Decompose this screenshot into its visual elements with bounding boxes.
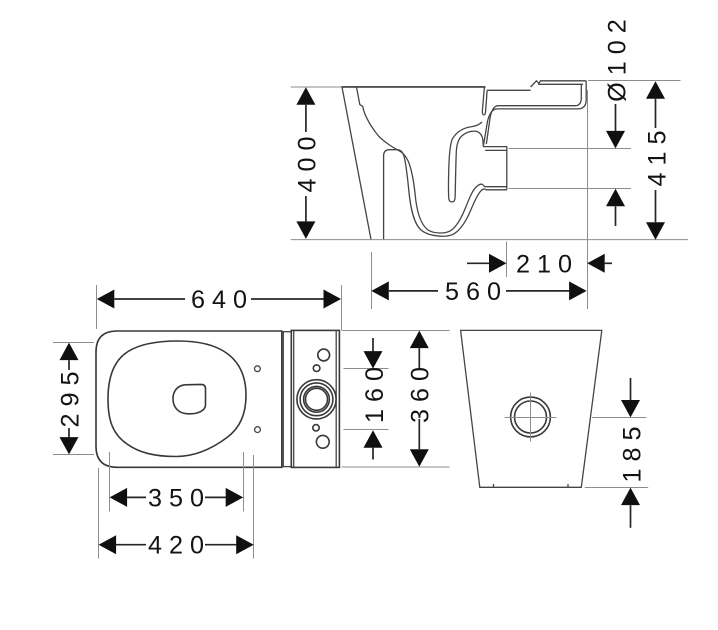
spud right edge and flush channel underside outer <box>483 81 586 147</box>
pan outline <box>96 331 282 467</box>
svg-text:360: 360 <box>407 360 435 423</box>
seat fixing hole lower <box>255 427 261 433</box>
svg-text:160: 160 <box>361 360 389 423</box>
svg-text:210: 210 <box>516 250 579 278</box>
pan rim top edge <box>342 86 486 88</box>
svg-text:185: 185 <box>618 419 646 482</box>
cistern lid hole upper big <box>318 349 330 361</box>
cistern shelf top <box>487 89 530 91</box>
pan back inner edge <box>282 331 284 467</box>
dimension 295 <box>53 343 94 455</box>
dimension 210 <box>467 242 612 279</box>
outlet socket top and right edge <box>483 147 507 190</box>
floor extension line <box>291 239 688 241</box>
svg-text:295: 295 <box>56 364 84 427</box>
cistern lid hole upper small <box>313 365 320 372</box>
svg-text:640: 640 <box>191 286 254 314</box>
foot tick right <box>567 484 569 487</box>
cistern back inner edge <box>335 330 337 467</box>
drain hole <box>173 384 206 413</box>
shelf slot behind bowl <box>482 87 487 115</box>
back edge extension line <box>587 90 589 309</box>
cistern lid hole lower big <box>316 435 329 448</box>
svg-text:400: 400 <box>293 129 321 192</box>
svg-text:Ø102: Ø102 <box>604 12 632 102</box>
back view outline <box>461 330 602 487</box>
svg-text:420: 420 <box>148 532 211 560</box>
bowl opening <box>108 341 246 457</box>
dimension 640 <box>97 285 342 330</box>
outlet crosshair vertical <box>530 393 532 442</box>
bowl inner surface <box>357 87 507 233</box>
cistern outline <box>291 330 339 467</box>
flush channel underside inner <box>486 84 581 144</box>
spud top extension line <box>588 80 681 82</box>
dimension 350 <box>110 452 244 512</box>
extension line top of pan <box>291 86 342 88</box>
outlet top extension line <box>509 148 632 150</box>
flush button rings <box>297 380 336 419</box>
seat fixing hole upper <box>255 366 261 372</box>
dimension 415 <box>643 81 671 240</box>
outlet crosshair horizontal <box>505 417 557 419</box>
dimension 420 <box>99 455 254 560</box>
foot tick left <box>493 484 495 487</box>
dimension 560 <box>371 252 586 309</box>
svg-text:560: 560 <box>445 278 508 306</box>
dimension 400 <box>293 87 321 239</box>
dimension 360 <box>342 331 450 468</box>
svg-text:415: 415 <box>643 123 671 186</box>
spud raised top with bump <box>531 81 587 87</box>
trap dip tube <box>449 122 484 202</box>
outlet bottom extension line <box>509 188 632 190</box>
cistern lid hole lower small <box>313 425 319 431</box>
svg-text:350: 350 <box>148 484 211 512</box>
outlet hole inner <box>515 401 547 433</box>
front outer wall <box>342 87 371 240</box>
pedestal inner wall and trap outer wall <box>384 150 507 240</box>
dimension 160 <box>344 338 389 460</box>
cistern front inner edge <box>293 330 295 467</box>
dimension Ø102 <box>604 12 632 226</box>
joint connectors <box>283 331 291 333</box>
dimension 185 <box>585 378 648 528</box>
outlet hole outer <box>511 397 551 437</box>
